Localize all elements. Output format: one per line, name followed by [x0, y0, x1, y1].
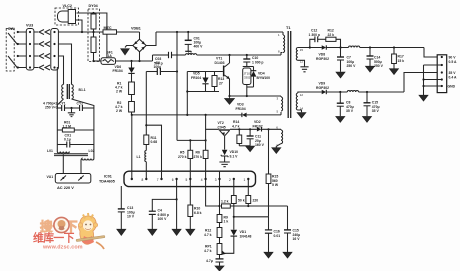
ground chain — [215, 266, 224, 271]
capacitor C4 — [152, 187, 176, 211]
switch SW arm 2 — [8, 56, 18, 68]
resistor JT102 3302 — [243, 66, 254, 68]
wire AC2 line — [94, 60, 102, 62]
wire row2 to choke — [58, 44, 71, 85]
node DY04 bottom — [92, 60, 94, 62]
node R2 bottom — [131, 114, 133, 116]
wire divider top line — [177, 139, 206, 141]
resistor R9 1k — [217, 215, 222, 223]
wire choke to plug left — [62, 155, 64, 174]
ground P3 — [272, 148, 281, 154]
wire S2 bottom — [298, 110, 302, 112]
wire VCC feed vertical — [268, 129, 270, 174]
wire base network bottom — [187, 91, 219, 93]
node bridge bottom — [138, 60, 140, 62]
watermark monkey mascot — [79, 216, 97, 244]
wire +rail top — [156, 31, 283, 33]
plug VU1 AC socket — [55, 174, 91, 184]
pin 90V — [441, 56, 443, 58]
ground C15 sec — [363, 117, 372, 123]
wire VLC2 top to fuse — [77, 13, 107, 58]
node row1 block1 — [29, 31, 31, 33]
pin 5 — [189, 171, 191, 186]
ground S1 — [300, 67, 308, 72]
bridge rectifier VDB1 — [133, 39, 146, 52]
connector chevrons row1 — [39, 30, 50, 35]
transistor VT1 — [229, 55, 231, 63]
wire choke left down — [57, 99, 63, 108]
wire AC2 riser to drain line — [152, 55, 154, 61]
node C8 — [339, 91, 341, 93]
ground C13 — [117, 229, 126, 235]
node snubber to winding P2 — [246, 95, 248, 97]
pin gnd a — [424, 64, 442, 66]
posistor DY04 dashed enclosure — [88, 9, 100, 62]
node divider R5 — [189, 139, 191, 141]
winding P2 — [281, 97, 283, 111]
IC U1 TDA4605 body — [124, 171, 256, 186]
node snubber left — [309, 46, 311, 48]
wire bridge bottom lead — [139, 52, 141, 61]
node vcc 205 — [205, 114, 207, 116]
wire VD2 line — [230, 128, 257, 130]
wire R14 C11 ground bar — [239, 145, 250, 147]
node 146 vcc junction — [145, 124, 147, 126]
wire row3 to choke — [58, 56, 63, 85]
wire VT2 collector tap — [206, 115, 219, 129]
line filter L02 — [81, 157, 94, 160]
wire bridge right riser — [146, 32, 156, 46]
wire left rail — [56, 108, 58, 149]
node row4 block2 — [53, 66, 55, 68]
wire 177 vertical — [176, 32, 178, 140]
switch SW arm 1 — [8, 33, 18, 45]
wire pin6 ground — [176, 199, 178, 229]
ground C14 — [366, 66, 375, 72]
pin gnd c — [424, 85, 442, 87]
pin dot 131 — [131, 171, 133, 179]
node C7 — [339, 46, 341, 48]
degauss coil VLC2 dashed enclosure — [55, 8, 79, 25]
node VT1 collector — [228, 54, 230, 56]
node DY04 row1 — [92, 31, 94, 33]
wire row3 left — [18, 55, 39, 57]
node VD6 tap — [130, 60, 132, 62]
wire row4 left — [18, 67, 39, 69]
winding P1 — [282, 32, 284, 35]
winding P3 — [280, 128, 282, 131]
node rail 177 — [176, 31, 178, 33]
connector chevrons row2 — [39, 42, 50, 47]
wire row4 to rail — [57, 68, 58, 109]
ground C16 — [264, 252, 273, 258]
ground C4 — [148, 229, 157, 235]
ground C7 — [336, 72, 345, 78]
wire P2 bottom return — [247, 114, 281, 116]
connector block 2 — [51, 29, 59, 71]
wire vcc line — [132, 114, 242, 116]
node row2 block1 — [29, 43, 31, 45]
transformer T1 core — [287, 31, 289, 118]
node row1 switch — [17, 31, 19, 33]
wire 35V into connector — [404, 73, 438, 93]
node VT1 emitter ground — [228, 95, 230, 97]
pin 2 — [233, 179, 235, 187]
connector chevrons row4 — [39, 65, 50, 70]
wire 35V rail — [359, 91, 405, 93]
wire pin4 drop — [206, 187, 220, 206]
node 220 bottom — [247, 205, 249, 207]
pin gnd b — [424, 79, 442, 81]
wiper arrow RP1 — [222, 250, 226, 254]
wire VLC2 bottom lead — [76, 20, 83, 32]
wire pin7 link — [146, 125, 161, 179]
node VD2 output — [267, 128, 269, 130]
wire row1 to MZC — [58, 31, 103, 33]
ground earth CY midpoint — [70, 107, 72, 109]
wire S1 top — [298, 47, 322, 49]
node row3 block1 — [29, 55, 31, 57]
connector XS01 — [437, 55, 447, 93]
node row2 block2 — [53, 43, 55, 45]
node row2 switch — [17, 43, 19, 45]
wire 90V into connector — [424, 48, 438, 58]
node chain y206 — [218, 205, 220, 207]
pin 1 — [247, 179, 249, 187]
wire P2 top — [230, 95, 282, 97]
node DY04 top — [92, 12, 94, 14]
ground connector — [419, 95, 428, 101]
wire S1 bottom to ground — [298, 60, 305, 66]
capacitor C15 soft start — [287, 206, 289, 230]
ground R14 C11 — [246, 146, 255, 152]
ground pin6 — [172, 229, 181, 235]
wire choke to plug right — [80, 160, 82, 174]
node row3 block2 — [53, 55, 55, 57]
node vcc 187 — [186, 114, 188, 116]
wire feedback bottom line — [234, 216, 269, 218]
node C2 right — [176, 70, 178, 72]
wire drain line y55 — [153, 54, 169, 56]
wire bridge top lead — [139, 32, 141, 39]
wire y206 line — [230, 205, 287, 207]
ground R17 — [390, 69, 399, 75]
wire bridge left to hot ground — [125, 46, 133, 48]
wire P3 bottom — [276, 144, 281, 148]
wire primary bottom to coil — [281, 53, 283, 56]
surge suppressor MZC — [103, 30, 117, 34]
wire row1 left — [18, 31, 39, 33]
node feedback line left — [233, 216, 235, 218]
pin 7 — [161, 171, 163, 179]
node C14 — [369, 46, 371, 48]
resistor R10 — [189, 187, 191, 205]
resistor R4 50k — [233, 187, 235, 196]
ground S2 — [297, 113, 306, 118]
pin 3 — [219, 171, 221, 186]
connector chevrons row3 — [39, 54, 50, 59]
ground C15 — [283, 252, 292, 258]
transistor VT2 — [219, 129, 230, 130]
posistor DY04 element B — [91, 37, 96, 53]
degauss coil VLC2 — [58, 11, 76, 22]
inductor L4 — [347, 91, 358, 93]
resistor R3 220 — [247, 187, 249, 196]
node row1 block2 — [53, 31, 55, 33]
node rail C01 — [187, 31, 189, 33]
filter choke B1.1 — [62, 85, 64, 99]
posistor DY04 element A — [91, 14, 96, 29]
wire 90V rail — [360, 47, 424, 49]
pin 4 — [205, 171, 207, 186]
ground hot near bridge — [121, 49, 129, 55]
resistor R11 — [144, 135, 149, 145]
wire S2 top — [298, 92, 322, 93]
wire row1 MZC to bridge — [117, 31, 140, 33]
winding S2 — [296, 93, 298, 110]
line filter core — [54, 153, 88, 155]
line filter L01 — [57, 149, 69, 153]
svg-text:www.dzsc.com: www.dzsc.com — [42, 245, 83, 251]
node row3 switch — [17, 55, 19, 57]
svg-text:维库一下: 维库一下 — [33, 231, 75, 245]
ground C8 — [336, 117, 345, 123]
fuse SF1 — [101, 58, 116, 65]
ground R10 — [186, 229, 195, 235]
wire row2 left — [18, 43, 39, 45]
wire base drive stub — [186, 72, 188, 115]
winding S1 — [296, 48, 298, 61]
capacitor C13 below IC — [120, 186, 122, 209]
ground VT1 emitter — [225, 96, 235, 104]
wire pin3 chain top — [219, 187, 221, 215]
node row4 switch — [17, 66, 19, 68]
capacitor C01 — [187, 32, 189, 40]
wire startup vertical 146 — [145, 72, 147, 136]
wire VT1 base line — [187, 71, 223, 73]
node C15 sec — [366, 91, 368, 93]
ground VD10 — [219, 162, 229, 167]
switch SW dashed enclosure — [6, 29, 14, 72]
wire right rail — [93, 108, 95, 157]
wire R2 to IC — [131, 115, 133, 179]
node VLC2 row1 — [81, 31, 83, 33]
connector block VU3 — [26, 29, 34, 71]
pin 35V — [441, 71, 443, 73]
pin 6 — [176, 179, 178, 187]
wire choke right down — [72, 99, 94, 108]
resistor R15 560 5W — [266, 174, 271, 184]
pin 8 — [145, 171, 147, 179]
node row4 block1 — [29, 66, 31, 68]
node R17 — [393, 46, 395, 48]
inductor L3 — [349, 46, 360, 48]
wire connector ground bus — [423, 65, 425, 95]
